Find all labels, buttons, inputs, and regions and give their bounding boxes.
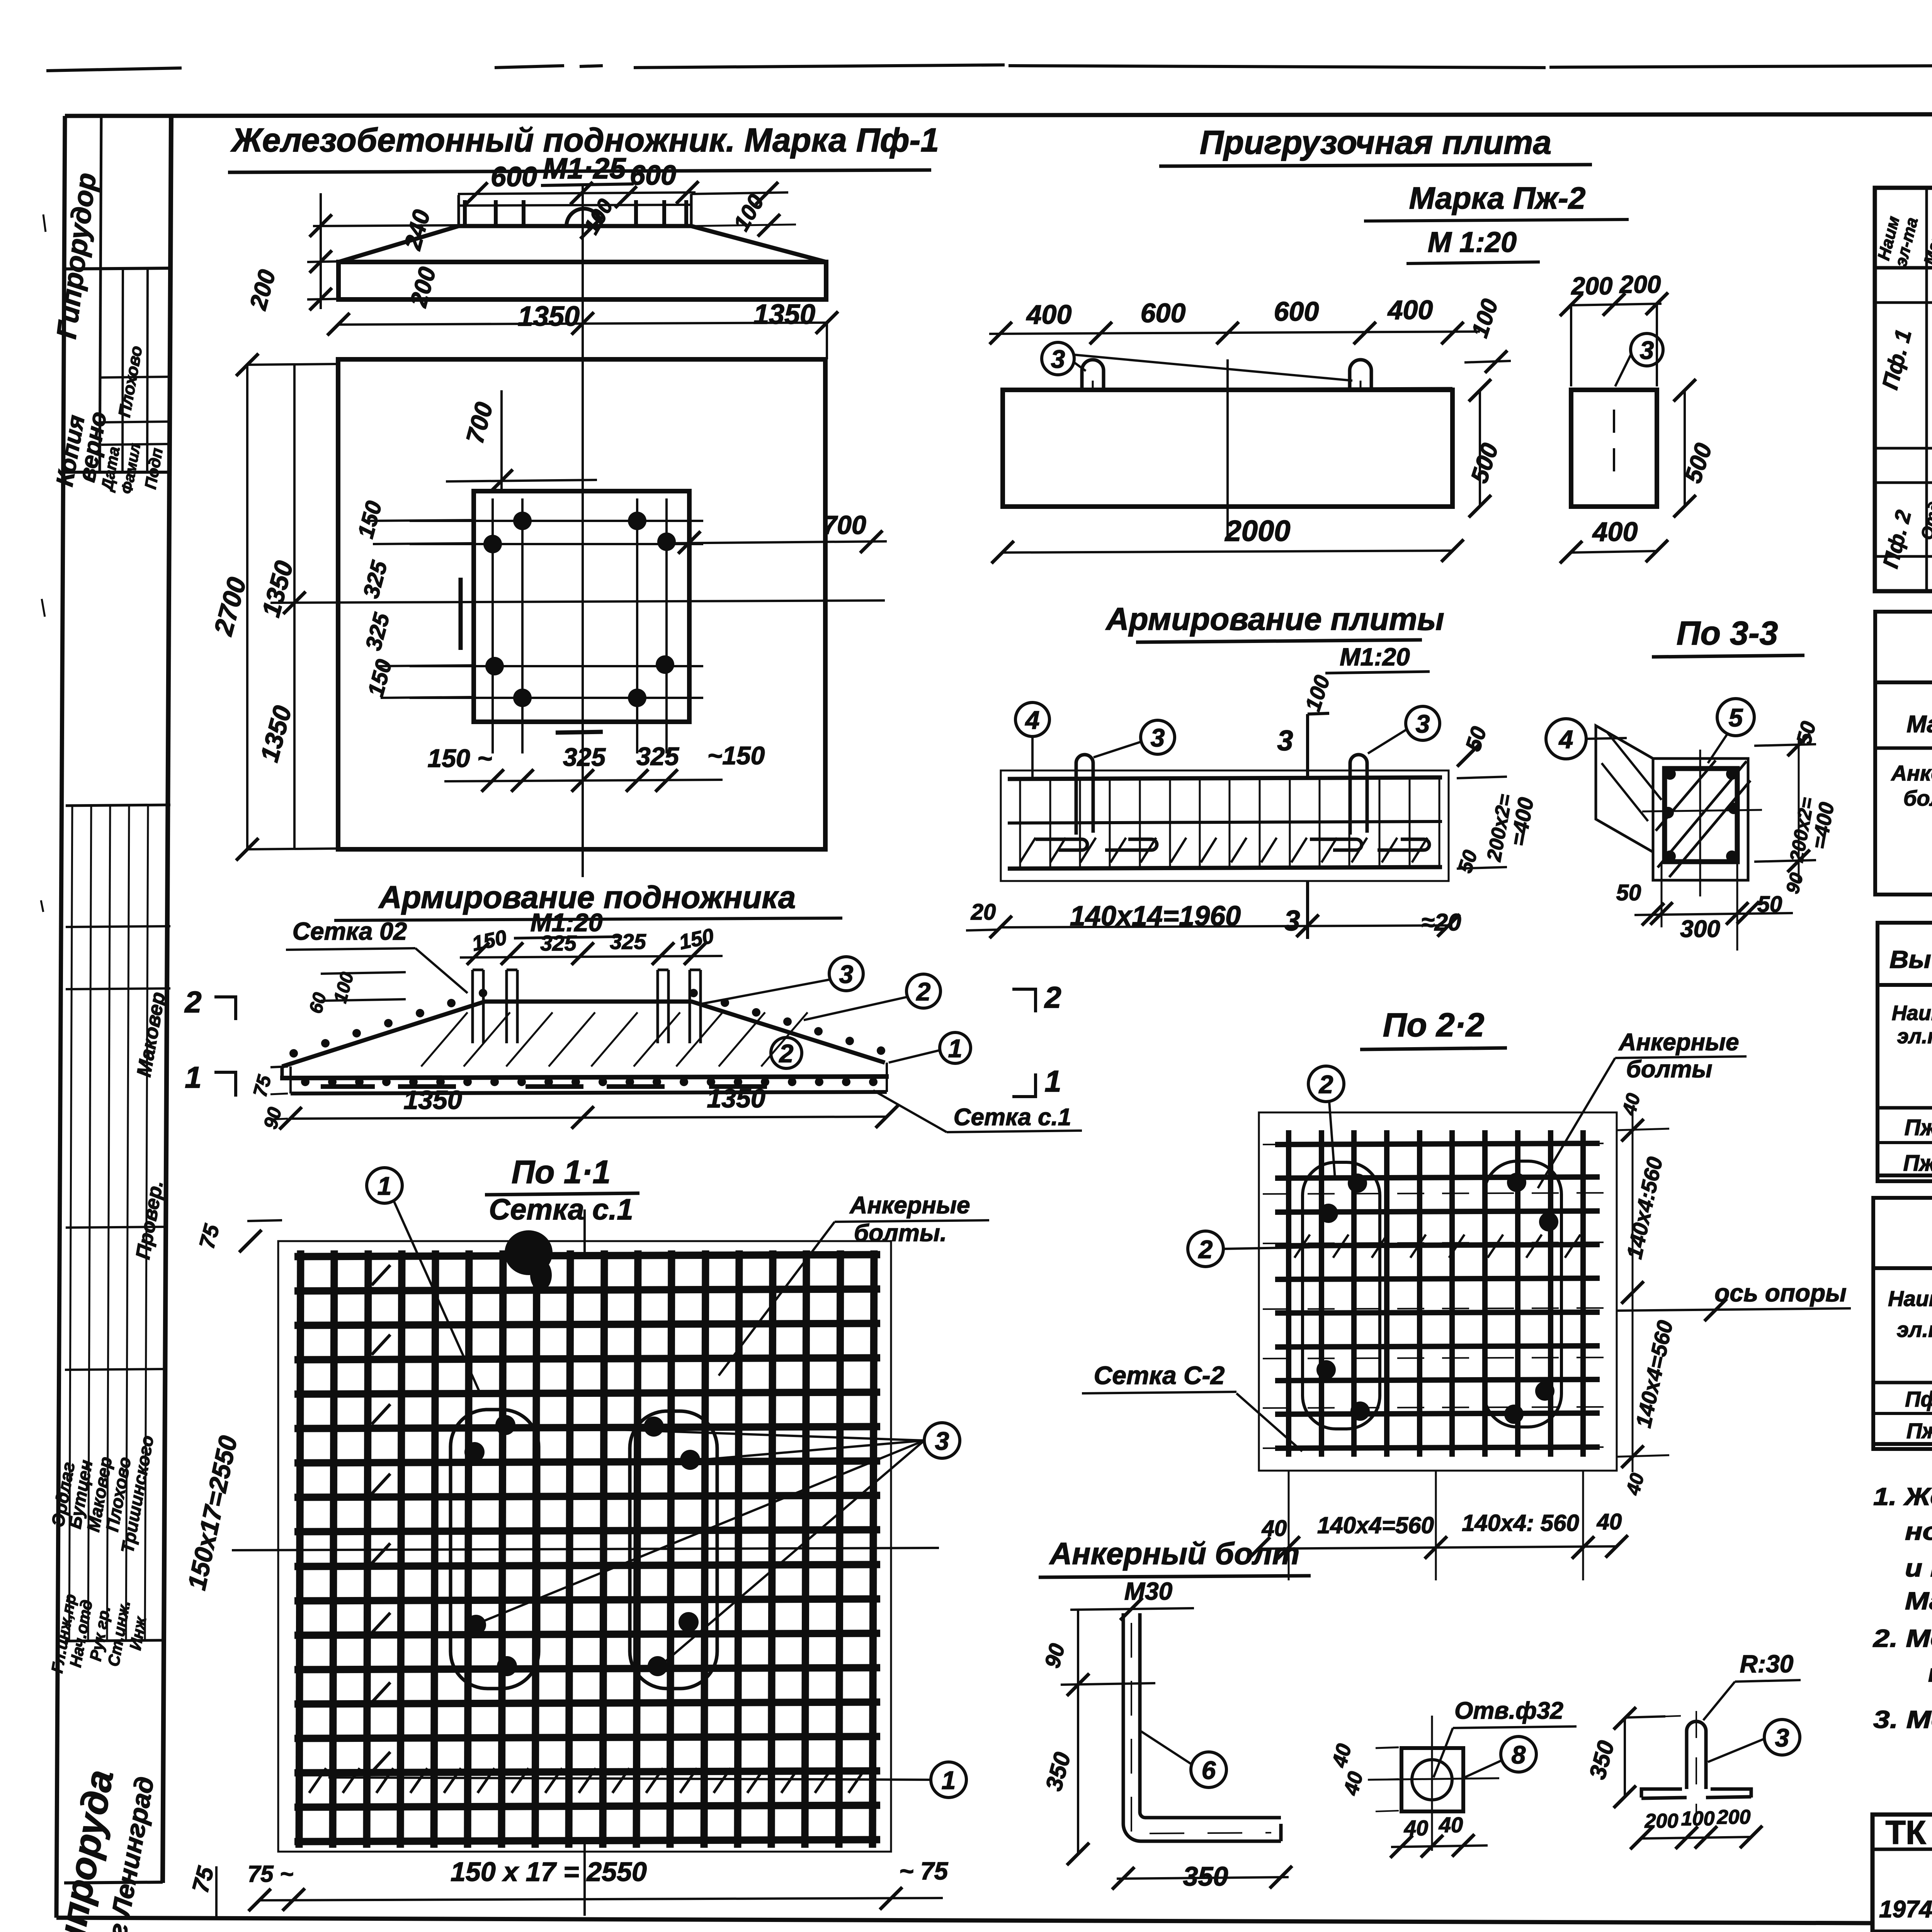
po2-2 outer rect [1259, 1112, 1617, 1471]
stamp box Giprorudo [100, 117, 101, 472]
svg-text:1: 1 [378, 1172, 392, 1200]
svg-text:ТК: ТК [1885, 1814, 1926, 1851]
vyborka rows [1878, 1141, 1932, 1144]
band section mark 3 top [1306, 714, 1309, 777]
svg-text:1350: 1350 [707, 1084, 765, 1113]
section rebar dots [301, 1078, 310, 1086]
svg-text:400: 400 [1387, 295, 1433, 325]
plan 700 dim vertical [500, 390, 503, 491]
mesh grid [299, 1250, 301, 1848]
po3-3 corner bars [1664, 768, 1676, 780]
po2-2 circle 2 top [1308, 1066, 1344, 1102]
svg-text:3: 3 [1151, 723, 1165, 752]
svg-text:2: 2 [1318, 1070, 1333, 1099]
svg-text:и марки „200” (пригрузочная пл: и марки „200” (пригрузочная плита Пж-2). [1905, 1554, 1932, 1582]
plate 2000 dim [1003, 551, 1452, 553]
dim 1350+1350 under elevation [338, 323, 827, 325]
svg-text:2: 2 [916, 977, 931, 1006]
bolt bottom dim 350 [1117, 1877, 1289, 1879]
elevation left height dims [313, 225, 459, 226]
svg-text:болты.: болты. [854, 1220, 947, 1247]
raskhod outer box [1873, 1198, 1932, 1449]
svg-text:200: 200 [1571, 272, 1613, 300]
svg-text:1974: 1974 [1879, 1896, 1932, 1923]
side view 500 dim [1684, 390, 1686, 507]
plan left dim 2700 [246, 365, 248, 849]
svg-text:3: 3 [839, 960, 854, 988]
svg-text:М30: М30 [1124, 1577, 1173, 1605]
svg-text:Отв.ф32: Отв.ф32 [1454, 1697, 1563, 1724]
hatch slashes left column [372, 1265, 390, 1285]
spec rows [1875, 301, 1932, 304]
svg-text:6: 6 [1202, 1756, 1216, 1784]
svg-text:4: 4 [1558, 725, 1573, 753]
section leader circles [829, 957, 863, 991]
svg-text:700: 700 [822, 510, 866, 540]
leader line to circle 1 bottom [328, 1777, 930, 1780]
svg-text:3: 3 [1051, 345, 1065, 373]
svg-text:325: 325 [563, 743, 606, 771]
svg-text:1350: 1350 [518, 301, 580, 332]
plate center line [1226, 359, 1229, 541]
mesh bottom dims [260, 1898, 943, 1900]
svg-text:150 х 17 = 2550: 150 х 17 = 2550 [451, 1857, 647, 1887]
svg-text:М1·25: М1·25 [543, 152, 626, 185]
vyborka frame [1878, 985, 1932, 1175]
svg-text:1: 1 [185, 1060, 201, 1094]
svg-text:≈20: ≈20 [1422, 909, 1461, 936]
svg-text:~150: ~150 [707, 741, 765, 770]
band section mark 3 bottom [1306, 882, 1309, 939]
band bottom dim [1001, 925, 1449, 927]
svg-text:1: 1 [1044, 1064, 1061, 1098]
plan left dim 1350x2 [293, 365, 296, 849]
po3-3 hatch [1658, 761, 1747, 867]
anchor loops po1-1 [451, 1410, 539, 1689]
stamp small cells [122, 268, 123, 472]
svg-text:Анкерные: Анкерные [1618, 1029, 1739, 1056]
section body outline [282, 1002, 885, 1066]
svg-text:40: 40 [1404, 1816, 1428, 1840]
stamp column right edge [163, 116, 171, 1883]
spec table frame [1875, 188, 1932, 591]
svg-text:350: 350 [1183, 1861, 1228, 1891]
section slab band [289, 1066, 292, 1094]
svg-text:Пж 2: Пж 2 [1906, 1418, 1932, 1443]
svg-text:R:30: R:30 [1740, 1650, 1794, 1678]
paper left small marks [41, 214, 46, 912]
section dim 1350 1350 [291, 1117, 887, 1119]
svg-text:По 1·1: По 1·1 [512, 1154, 611, 1190]
svg-text:болт.: болт. [1903, 786, 1932, 810]
svg-text:5: 5 [1729, 703, 1743, 732]
svg-text:3. Монтажные схемы опор см. ли: 3. Монтажные схемы опор см. листы 7,8,9,… [1873, 1706, 1932, 1733]
svg-text:40: 40 [1439, 1813, 1463, 1837]
po2-2 anchor dots [1348, 1173, 1367, 1193]
stamp box Kopiya verno [65, 471, 170, 474]
elevation trapezoid [338, 226, 459, 262]
side view 400 dim [1571, 551, 1657, 553]
band bottom hooks [1036, 839, 1087, 850]
band verticals [1019, 779, 1021, 868]
svg-text:Наимен: Наимен [1892, 1002, 1932, 1025]
elevation dim 600/600 line [458, 192, 696, 194]
svg-text:3: 3 [1277, 724, 1293, 757]
po3-3 outer section [1653, 759, 1748, 880]
svg-text:Армирование плиты: Армирование плиты [1105, 602, 1444, 637]
section mark 2 left [214, 997, 236, 1020]
svg-text:новибрированного бетона марки: новибрированного бетона марки „300”(подн… [1905, 1517, 1932, 1545]
svg-text:100: 100 [1681, 1808, 1715, 1830]
svg-text:600: 600 [491, 162, 537, 192]
plate circle 3 [1042, 342, 1074, 375]
svg-text:200: 200 [1619, 270, 1661, 298]
bolt circle 6 [1191, 1752, 1226, 1787]
svg-text:М1:20: М1:20 [1340, 643, 1410, 671]
svg-text:Сетка с.1: Сетка с.1 [489, 1193, 633, 1226]
svg-text:75 ~: 75 ~ [248, 1861, 293, 1887]
svg-text:150 ~: 150 ~ [428, 744, 492, 772]
svg-text:2: 2 [779, 1039, 794, 1068]
plan center axes [582, 336, 584, 877]
plan anchor bolts [513, 512, 532, 530]
svg-text:Пригрузочная плита: Пригрузочная плита [1200, 124, 1551, 161]
band circles and leaders [1015, 702, 1049, 736]
po2-2 dashed construction lines [1263, 1143, 1613, 1145]
svg-text:Пж. 2: Пж. 2 [1903, 1151, 1932, 1176]
po3-3 circles [1546, 719, 1586, 759]
stamp narrow columns [66, 805, 170, 806]
svg-text:2: 2 [1198, 1235, 1213, 1264]
svg-text:болты: болты [1626, 1056, 1713, 1083]
elevation plinth [457, 195, 460, 226]
svg-text:эл.та: эл.та [1897, 1317, 1932, 1342]
svg-text:3: 3 [1775, 1723, 1789, 1752]
section mark 1 right [1012, 1073, 1036, 1097]
elevation base slab [338, 262, 826, 299]
svg-text:Анкерные: Анкерные [849, 1192, 970, 1219]
raskhod rows [1873, 1412, 1932, 1415]
svg-text:50: 50 [1616, 880, 1641, 905]
svg-text:325: 325 [636, 742, 679, 770]
title block frame [1872, 1815, 1932, 1932]
svg-text:1350: 1350 [753, 299, 815, 330]
svg-text:1350: 1350 [403, 1085, 462, 1115]
svg-text:1: 1 [948, 1034, 963, 1063]
band outer rect [1001, 770, 1449, 881]
plan bolt construction lines [492, 498, 494, 753]
svg-text:М 1:20: М 1:20 [1428, 226, 1517, 258]
plate anchor loops [1082, 360, 1104, 390]
svg-text:Пф-1: Пф-1 [1905, 1387, 1932, 1411]
raskhod frame [1873, 1268, 1932, 1444]
svg-text:Сетка 02: Сетка 02 [293, 917, 407, 945]
svg-text:Пж.1: Пж.1 [1905, 1115, 1932, 1140]
stamp Giproruda Leningrad [65, 1640, 162, 1641]
washer plate [1401, 1748, 1463, 1811]
anchor spec outer box [1875, 612, 1932, 895]
svg-text:Анкерные: Анкерные [1891, 761, 1932, 785]
svg-text:ось опоры: ось опоры [1714, 1279, 1847, 1307]
svg-text:Марка: Марка [1906, 711, 1932, 738]
svg-text:200: 200 [1645, 1810, 1679, 1832]
leader lines to circle 3 [510, 1426, 924, 1440]
svg-text:300: 300 [1680, 916, 1720, 942]
po2-2 mesh [1286, 1130, 1291, 1457]
svg-text:Марка Пж-2: Марка Пж-2 [1409, 181, 1586, 215]
svg-text:140х4: 560: 140х4: 560 [1462, 1510, 1579, 1536]
section mark 1 left [214, 1072, 236, 1097]
frame border [65, 114, 1932, 116]
svg-text:20: 20 [971, 900, 996, 925]
svg-text:2000: 2000 [1224, 515, 1290, 548]
svg-text:325: 325 [540, 931, 577, 955]
svg-text:эл.та: эл.та [1897, 1025, 1932, 1048]
svg-text:2. Места пересечения стержней: 2. Места пересечения стержней перевязать… [1873, 1624, 1932, 1652]
washer circle 8 [1501, 1736, 1536, 1772]
mesh outer rect [278, 1241, 891, 1852]
plate 500 dim [1479, 390, 1481, 507]
bolt L shape [1123, 1613, 1281, 1841]
svg-text:3: 3 [1416, 709, 1430, 738]
svg-text:проволокой: проволокой [1928, 1659, 1932, 1687]
band top and bottom bars [1008, 777, 1442, 779]
po3-3 center lines [1699, 750, 1701, 896]
svg-text:600: 600 [1274, 296, 1319, 327]
svg-text:По 2·2: По 2·2 [1383, 1007, 1485, 1044]
bolt left dims [1077, 1610, 1079, 1685]
plan 700 dim right [667, 541, 887, 543]
svg-text:Выборка арматуры, закладных ча: Выборка арматуры, закладных частей, анке… [1889, 946, 1932, 973]
svg-text:140х4=560: 140х4=560 [1317, 1512, 1434, 1538]
band hairpins [1076, 755, 1093, 835]
svg-text:~ 75: ~ 75 [899, 1857, 949, 1885]
svg-text:Марка бетона по морозостойкост: Марка бетона по морозостойкости Мрз „100… [1905, 1587, 1932, 1615]
hatch slashes bottom row [309, 1768, 326, 1793]
plate side view rect [1571, 390, 1657, 507]
svg-text:2: 2 [1044, 980, 1061, 1014]
svg-text:140х14=1960: 140х14=1960 [1070, 901, 1241, 932]
anchor bolt dots po1-1 [464, 1442, 485, 1462]
plan outer square [338, 359, 825, 849]
section small dims 60 100 [321, 972, 406, 974]
svg-text:3: 3 [935, 1427, 949, 1455]
svg-text:3: 3 [1640, 336, 1654, 364]
ink blot [505, 1230, 553, 1275]
svg-text:600: 600 [1141, 298, 1186, 328]
section bottom hooks [321, 1084, 456, 1089]
elevation center axis [582, 185, 584, 340]
svg-text:Сетка с.1: Сетка с.1 [954, 1104, 1071, 1131]
T-bolt bottom dims [1641, 1837, 1751, 1838]
svg-text:40: 40 [1597, 1509, 1622, 1534]
svg-text:Сетка С-2: Сетка С-2 [1094, 1361, 1225, 1389]
svg-text:4: 4 [1025, 706, 1040, 734]
svg-text:8: 8 [1512, 1740, 1526, 1769]
svg-text:200: 200 [1717, 1806, 1751, 1828]
section anchor bolt posts [471, 970, 474, 1043]
circle 1 top [367, 1168, 402, 1203]
svg-text:Анкерный болт: Анкерный болт [1049, 1536, 1299, 1571]
po2-2 anchor ovals [1303, 1162, 1380, 1429]
plate elevation rect [1003, 390, 1452, 507]
po2-2 circle 2 left [1188, 1231, 1223, 1267]
svg-text:3: 3 [1284, 905, 1300, 937]
plan stray marks [459, 578, 463, 650]
svg-text:400: 400 [1592, 517, 1638, 547]
spec table columns [1925, 188, 1928, 591]
po2-2 hatch slashes [1294, 1235, 1310, 1258]
mesh center axes [232, 1548, 939, 1550]
side view circle 3 [1631, 333, 1663, 366]
T-bolt pos3 [1687, 1731, 1706, 1789]
svg-text:325: 325 [610, 929, 646, 954]
svg-text:400: 400 [1026, 299, 1072, 330]
svg-text:1. Железобетонные элементы изг: 1. Железобетонные элементы изготовляются… [1873, 1483, 1932, 1510]
svg-text:2: 2 [184, 985, 201, 1019]
side view dims 200 200 [1571, 304, 1662, 305]
band hatch slashes [1020, 838, 1036, 862]
anchor spec frame [1875, 682, 1932, 895]
svg-text:1: 1 [942, 1766, 956, 1794]
svg-text:По 3-3: По 3-3 [1677, 615, 1778, 652]
po3-3 stirrup square [1665, 769, 1737, 862]
svg-text:Наимен.: Наимен. [1888, 1286, 1932, 1311]
section hatch [421, 1012, 468, 1066]
vyborka outer box [1878, 923, 1932, 1181]
section mark 2 right [1012, 989, 1036, 1012]
plan inner square [474, 491, 689, 722]
plate dim line 400 600 600 400 [989, 332, 1480, 334]
po3-3 wing [1596, 726, 1653, 852]
paper top edge (scan) [46, 65, 1932, 71]
